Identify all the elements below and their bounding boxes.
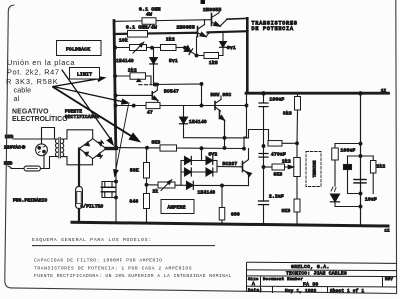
svg-text:FOLDBACK: FOLDBACK bbox=[66, 46, 90, 52]
potentiometer 2k bbox=[158, 182, 175, 188]
svg-text:1Z: 1Z bbox=[385, 230, 391, 234]
wire primary bottom bbox=[44, 157, 55, 169]
svg-text:C/FILTRO: C/FILTRO bbox=[81, 205, 104, 210]
svg-text:348: 348 bbox=[130, 200, 139, 205]
wire: rail below bridge bbox=[115, 149, 117, 223]
svg-text:FUS.PRIMARIO: FUS.PRIMARIO bbox=[13, 200, 47, 204]
svg-text:1N4148: 1N4148 bbox=[116, 59, 134, 64]
diode network left rail bbox=[180, 161, 182, 186]
svg-text:BC547: BC547 bbox=[164, 90, 179, 95]
svg-text:10uF: 10uF bbox=[365, 198, 377, 203]
svg-text:Date:: Date: bbox=[248, 290, 262, 294]
svg-text:Pot. 2k2, R47: Pot. 2k2, R47 bbox=[7, 68, 60, 77]
wire bbox=[176, 47, 185, 49]
svg-text:Document Number: Document Number bbox=[263, 277, 303, 282]
wire row6 bbox=[116, 147, 160, 149]
svg-text:TECNICO: JUAN CARLES: TECNICO: JUAN CARLES bbox=[286, 271, 347, 277]
wire plug top bbox=[42, 128, 55, 144]
svg-text:5v1: 5v1 bbox=[169, 59, 178, 64]
resistor 3K3 bbox=[160, 145, 177, 151]
wire row4 bbox=[115, 75, 130, 77]
svg-text:BC267: BC267 bbox=[223, 162, 238, 167]
annotation arrow to R47 node bbox=[53, 87, 123, 102]
zener with arrows bbox=[331, 187, 336, 192]
resistor 680 bbox=[221, 186, 223, 208]
svg-text:TENSION: TENSION bbox=[314, 160, 318, 177]
svg-text:4W: 4W bbox=[146, 12, 152, 18]
transistor Q2 2N3055 bbox=[197, 27, 199, 37]
diode 1N4148 vertical mid bbox=[183, 106, 185, 138]
svg-text:AMPERE: AMPERE bbox=[168, 205, 186, 211]
wire node A to drop bbox=[155, 84, 202, 106]
capacitor 100uF bbox=[259, 102, 268, 104]
wire: row2 thick right bbox=[208, 31, 248, 32]
svg-text:Unión en la placa: Unión en la placa bbox=[7, 58, 75, 67]
wire bbox=[193, 184, 249, 186]
resistor R 0.1 OHM/4W row2 bbox=[128, 31, 148, 38]
svg-text:1k5: 1k5 bbox=[209, 61, 218, 66]
wire: emitter bus row2 thick bbox=[114, 33, 197, 34]
wire: cap rail bbox=[263, 93, 265, 224]
annotation line to electrolytic negative bbox=[116, 105, 129, 172]
resistor 3k3 top bbox=[297, 93, 299, 96]
svg-text:REV: REV bbox=[385, 278, 393, 282]
svg-text:1N4148: 1N4148 bbox=[189, 120, 207, 125]
wire row5 bbox=[115, 105, 146, 107]
annotation arrow to rail junction bbox=[62, 70, 111, 139]
wire bbox=[175, 184, 187, 186]
svg-text:FA 30: FA 30 bbox=[303, 281, 319, 287]
resistor 2k2 bbox=[130, 73, 146, 80]
wire secondary top bbox=[62, 130, 93, 139]
wire: collector bus vertical right bbox=[246, 18, 249, 93]
resistor 2k2 output bbox=[372, 156, 374, 161]
svg-text:DE POTENCIA: DE POTENCIA bbox=[252, 26, 294, 32]
fuse FUS.PRIMARIO bbox=[24, 166, 41, 171]
wire mains bottom + fuse bbox=[8, 166, 24, 169]
mid tap bbox=[201, 148, 203, 160]
svg-text:47: 47 bbox=[147, 111, 153, 116]
svg-text:220VAC: 220VAC bbox=[4, 147, 21, 151]
wire: row3 bbox=[115, 47, 130, 49]
wire secondary bottom bbox=[62, 157, 93, 165]
capacitor 470uF bbox=[259, 153, 268, 155]
svg-text:2k: 2k bbox=[153, 189, 159, 194]
wire y=156 bbox=[348, 155, 374, 157]
svg-text:100uF: 100uF bbox=[341, 149, 356, 154]
svg-text:CAPACIDAD DE FILTRO: 1000MF PO: CAPACIDAD DE FILTRO: 1000MF POR AMPERIO bbox=[34, 258, 162, 264]
diode 1N4148 vertical bbox=[153, 48, 155, 86]
resistor 1k5 bbox=[204, 53, 219, 59]
wire: output rail bbox=[360, 93, 362, 225]
wire: top output bus bbox=[246, 92, 389, 95]
wire bbox=[177, 147, 245, 149]
wire pot down bbox=[296, 177, 298, 200]
svg-text:680: 680 bbox=[231, 213, 240, 218]
svg-text:2k2: 2k2 bbox=[166, 38, 175, 43]
wire: emitter to row6 bbox=[224, 138, 226, 148]
wire: bridge negative thick with fuse bbox=[78, 149, 80, 187]
svg-text:al: al bbox=[14, 94, 20, 103]
svg-text:NEGATIVO: NEGATIVO bbox=[12, 108, 49, 115]
base wire to BC267 bbox=[217, 166, 241, 168]
annotation arrow to 3K3 bbox=[53, 87, 134, 138]
svg-text:1Z: 1Z bbox=[381, 90, 387, 94]
svg-text:FUENTE RECTIFICADORA: UN 20% S: FUENTE RECTIFICADORA: UN 20% SUPERIOR A … bbox=[34, 273, 232, 279]
box LIMIT bbox=[70, 68, 100, 80]
annotation arrow to LIMIT bbox=[53, 79, 99, 87]
wire bbox=[160, 105, 247, 107]
svg-text:May 1, 1993: May 1, 1993 bbox=[285, 290, 317, 294]
svg-text:TRANSISTORES DE POTENCIA: 1 PO: TRANSISTORES DE POTENCIA: 1 POR CADA 2 A… bbox=[34, 266, 192, 272]
svg-text:RED: RED bbox=[5, 136, 14, 140]
union dashes bbox=[139, 84, 152, 86]
svg-text:10k: 10k bbox=[119, 39, 128, 44]
svg-text:RECTIFICADOR: RECTIFICADOR bbox=[65, 116, 99, 120]
resistor 3K3 bottom bbox=[294, 199, 300, 212]
capacitor 2.2uF bbox=[259, 200, 269, 202]
svg-text:3k3: 3k3 bbox=[283, 111, 292, 116]
wire fuse to plug bbox=[41, 155, 45, 169]
wire: bottom negative bus bbox=[72, 222, 388, 226]
capacitor 10uF bbox=[354, 179, 366, 181]
zener 9v1 bbox=[219, 32, 224, 56]
wire bbox=[147, 47, 161, 49]
svg-text:0.1 OHM/4W: 0.1 OHM/4W bbox=[126, 25, 157, 31]
wire: emitter L route bbox=[224, 120, 226, 137]
dark element bbox=[347, 156, 349, 165]
trimmer arrow bbox=[137, 79, 141, 82]
svg-text:LIMIT: LIMIT bbox=[77, 71, 92, 77]
bridge rectifier bbox=[79, 139, 106, 159]
diode network right rail bbox=[216, 161, 218, 173]
wiper bbox=[285, 166, 293, 168]
plug symbol bbox=[36, 144, 48, 156]
wire y=143.5 bbox=[335, 143, 361, 145]
diodes row B bbox=[181, 171, 217, 173]
title block bbox=[247, 262, 398, 293]
resistor 47 bbox=[146, 102, 160, 108]
svg-text:ELECTROLÍTICO: ELECTROLÍTICO bbox=[12, 114, 68, 123]
transformer T1 bbox=[55, 139, 57, 157]
filter capacitors bbox=[102, 182, 116, 198]
svg-text:2k2: 2k2 bbox=[377, 164, 386, 169]
diode 5V1 diagonal bbox=[185, 48, 197, 56]
resistor (series) bbox=[268, 141, 282, 147]
diode 1N4148 bbox=[187, 181, 194, 189]
box AMPERE bbox=[161, 200, 194, 214]
wire row7 bbox=[147, 184, 159, 186]
wire: row1 to collector bus bbox=[227, 17, 248, 20]
svg-text:PUENTE: PUENTE bbox=[65, 110, 82, 114]
svg-text:2N3055: 2N3055 bbox=[177, 25, 196, 31]
svg-text:3K3: 3K3 bbox=[274, 172, 283, 177]
svg-text:100uF: 100uF bbox=[270, 97, 285, 102]
svg-text:1N4148: 1N4148 bbox=[198, 190, 216, 195]
junction taps on rail bbox=[114, 46, 117, 49]
wire: collector bus drop bbox=[244, 93, 247, 149]
wire node B bbox=[197, 37, 205, 56]
svg-text:3K3: 3K3 bbox=[282, 209, 291, 214]
resistor 348 bbox=[144, 194, 150, 209]
svg-text:ESQUEMA GENERAL PARA LOS MODEL: ESQUEMA GENERAL PARA LOS MODELOS: bbox=[32, 237, 152, 243]
svg-text:9v1: 9v1 bbox=[227, 46, 236, 51]
svg-text:58K: 58K bbox=[130, 168, 139, 173]
resistor R 0.1 OHM 4W row1 bbox=[142, 18, 156, 25]
svg-text:GRELCO, S.A.: GRELCO, S.A. bbox=[291, 264, 330, 270]
potentiometer 10k bbox=[130, 45, 147, 51]
wire mains top bbox=[13, 138, 55, 140]
wire: row1 base bbox=[115, 20, 212, 22]
resistor 2k2 bbox=[161, 45, 177, 51]
svg-text:470uF: 470uF bbox=[271, 153, 286, 158]
svg-text:3K3: 3K3 bbox=[152, 141, 161, 146]
fuse secondary vertical bbox=[76, 187, 83, 209]
svg-text:2.2uF: 2.2uF bbox=[269, 195, 284, 200]
box FOLDBACK bbox=[57, 41, 102, 56]
dashed box TENSION bbox=[306, 152, 321, 187]
resistor 3K3 wiper bbox=[272, 164, 285, 170]
wire: bridge to rail junction bbox=[106, 147, 117, 150]
transistor Q1 2N3055 bbox=[211, 14, 213, 26]
top edge mark bbox=[201, 0, 206, 4]
svg-text:2N3055: 2N3055 bbox=[203, 7, 222, 13]
wire to node bbox=[146, 76, 152, 85]
resistor 58K bbox=[146, 148, 148, 163]
wire: main positive rail vertical bbox=[114, 21, 116, 149]
svg-text:Sheet 1 of 1: Sheet 1 of 1 bbox=[330, 289, 364, 294]
svg-text:A: A bbox=[252, 281, 255, 287]
capacitor 100uF output bbox=[334, 144, 336, 149]
